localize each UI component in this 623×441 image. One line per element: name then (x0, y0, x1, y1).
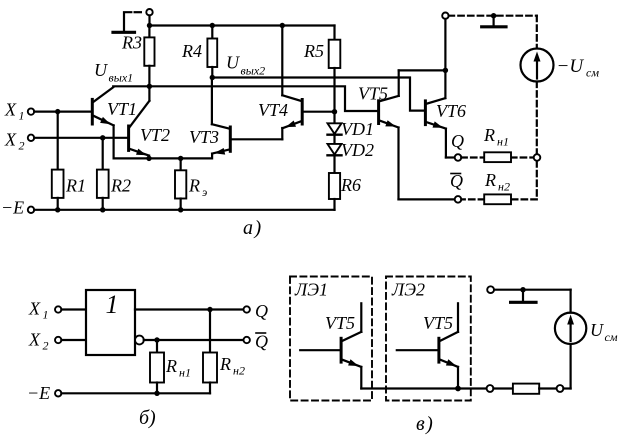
label Usm (590, 320, 618, 344)
wire from bias resistor (539, 387, 556, 389)
wire: gate to Q (135, 308, 244, 310)
diode VD1 (328, 112, 342, 144)
label Qbar (part b) (255, 332, 268, 352)
terminal -E (part a) (28, 207, 34, 213)
resistor R2 (97, 138, 109, 210)
svg-text:1: 1 (106, 290, 119, 319)
junction: Qbar line / Rn1 (154, 337, 159, 342)
svg-text:R6: R6 (340, 175, 361, 195)
junction: R4 foot / VT3 collector (210, 75, 215, 80)
terminal (right of bias resistor) (557, 385, 564, 392)
wire: X2 to gate (61, 339, 86, 341)
junction: R3/VT2 collector on Uvyx1 line (147, 84, 152, 89)
junction: rail/R3 (147, 23, 152, 28)
label X1 (part b) (28, 299, 49, 322)
resistor Rn2 (part a) (484, 194, 511, 204)
label Rn1 (part b) (165, 356, 191, 380)
svg-text:1: 1 (43, 308, 49, 322)
dashed box LE1 (290, 277, 372, 401)
resistor R1 (52, 112, 64, 210)
svg-text:R: R (188, 176, 200, 196)
wire: VT4 emitter to VT3 base (232, 128, 283, 139)
wire: X2 line to VT2 base (34, 137, 127, 139)
transistor VT1 (92, 87, 113, 158)
svg-text:R: R (483, 125, 495, 145)
label Rn1 (part a) (483, 125, 509, 149)
svg-text:VT5: VT5 (423, 313, 453, 333)
svg-text:н1: н1 (497, 135, 509, 149)
svg-text:Q: Q (451, 131, 464, 151)
svg-text:2: 2 (43, 339, 49, 353)
resistor R5 (329, 26, 341, 112)
transistor VT2 (129, 86, 150, 158)
junction: ground tap (part v) (520, 287, 525, 292)
terminal (top supply, part a) (146, 9, 152, 26)
svg-text:н1: н1 (179, 366, 191, 380)
junction: VT2 emitter (146, 156, 151, 161)
terminal X1 (part b) (55, 306, 61, 312)
svg-text:VT5: VT5 (325, 313, 355, 333)
junction: Q line / Rn2 (207, 307, 212, 312)
svg-text:X: X (28, 299, 41, 319)
terminal -E (part b) (55, 390, 61, 396)
wire: top supply rail (150, 24, 335, 26)
svg-text:см: см (605, 330, 618, 344)
svg-text:в): в) (416, 413, 434, 435)
svg-text:X: X (4, 100, 17, 120)
svg-text:U: U (94, 60, 108, 80)
bias resistor (part v) (513, 384, 539, 394)
svg-text:VT4: VT4 (258, 100, 288, 120)
terminal X2 (part b) (55, 337, 61, 343)
svg-text:см: см (586, 66, 599, 80)
wire: X1 to gate (61, 308, 86, 310)
svg-text:VT2: VT2 (140, 125, 170, 145)
svg-text:VD1: VD1 (341, 119, 374, 139)
label Uvyx2 (226, 53, 265, 78)
terminal Qbar (455, 196, 462, 203)
svg-text:1: 1 (19, 109, 25, 123)
svg-text:−E: −E (27, 383, 50, 403)
resistor Re (175, 158, 186, 209)
junction: rail/VT4 collector (280, 23, 285, 28)
svg-text:б): б) (139, 407, 156, 429)
svg-text:−E: −E (1, 198, 24, 218)
svg-text:ЛЭ2: ЛЭ2 (391, 280, 425, 300)
svg-text:вых2: вых2 (241, 64, 266, 78)
svg-text:R4: R4 (181, 41, 202, 61)
label Uvyx1 (94, 60, 133, 85)
transistor VT3 (212, 78, 230, 159)
svg-text:−U: −U (557, 56, 585, 77)
svg-text:вых1: вых1 (109, 71, 134, 85)
wire: common emitter line (114, 157, 212, 159)
wire: up to current source (563, 344, 570, 389)
node Uvyx1: wire from R3 foot to VT5 base (113, 86, 377, 111)
svg-text:X: X (4, 130, 17, 150)
label X1 (4, 100, 25, 123)
svg-text:X: X (28, 330, 41, 350)
svg-text:VT5: VT5 (358, 84, 388, 104)
svg-text:Q: Q (255, 332, 268, 352)
wire: Qbar output lead (399, 198, 455, 200)
node Uvyx2: wire from R4 foot to VT6 base (212, 78, 424, 111)
label Re (188, 176, 207, 200)
wire: -E rail (part b) (61, 392, 210, 394)
resistor R3 (144, 26, 154, 87)
svg-text:ЛЭ1: ЛЭ1 (294, 280, 328, 300)
svg-text:VT1: VT1 (107, 99, 137, 119)
label Rn2 (part b) (219, 354, 245, 378)
ground (top-left, part a) (113, 12, 141, 32)
input terminal X1 (28, 108, 34, 114)
junction: rail/R4 (210, 23, 215, 28)
wire: gate to Qbar (144, 339, 244, 341)
current source Usm (part v) (555, 313, 586, 344)
junction: X1/R1 (55, 109, 60, 114)
junction: X2/R2 (100, 135, 105, 140)
diode VD2 (328, 144, 342, 173)
dashed box LE2 (386, 277, 471, 401)
dashed net: top right to bias source (449, 16, 537, 200)
svg-text:R: R (484, 170, 496, 190)
svg-text:R3: R3 (121, 33, 142, 53)
transistor VT4 (282, 26, 334, 129)
gate U1 (OR symbol box) (86, 290, 135, 355)
wire: -E rail (34, 209, 334, 211)
label -Usm (557, 56, 600, 80)
label Rn2 (part a) (484, 170, 510, 194)
junction terminal on bias line (534, 154, 541, 161)
svg-text:VT6: VT6 (436, 101, 466, 121)
resistor Rn1 (part b) (150, 340, 164, 393)
junction: Rn1/-E (part b) (154, 391, 159, 396)
svg-text:R: R (165, 356, 177, 376)
terminal Q (part b) (244, 306, 250, 312)
terminal (left of bias resistor) (487, 385, 494, 392)
resistor Rn1 (part a) (484, 152, 511, 162)
wire: common emitter line (part v) (361, 387, 486, 389)
junction: R1/-E (55, 207, 60, 212)
svg-text:R2: R2 (110, 176, 131, 196)
transistor VT5 (part a) (379, 70, 446, 199)
svg-text:U: U (590, 320, 604, 340)
junction: Re/-E (178, 207, 183, 212)
svg-text:н2: н2 (498, 180, 510, 194)
svg-text:2: 2 (19, 139, 25, 153)
junction: LE2 emitter (455, 386, 461, 392)
svg-text:R: R (219, 354, 231, 374)
ground (part v) (511, 290, 536, 303)
svg-text:R1: R1 (65, 176, 86, 196)
wire: Q output lead (446, 156, 455, 158)
label X2 (part b) (28, 330, 49, 353)
transistor VT6 (425, 70, 446, 157)
inversion bubble (135, 336, 144, 345)
terminal Qbar (part b) (244, 337, 250, 343)
label Qbar (450, 171, 463, 191)
svg-text:н2: н2 (233, 364, 245, 378)
wire: X1 line to VT1 base (34, 110, 91, 112)
resistor R6 (329, 173, 340, 210)
junction: Re top (178, 156, 183, 161)
svg-text:U: U (226, 53, 240, 73)
junction: R2/-E (100, 207, 105, 212)
terminal Q (455, 154, 462, 161)
transistor VT5 (LE1) (300, 303, 361, 388)
label X2 (4, 130, 25, 153)
node A: reference divider junction (332, 109, 337, 114)
svg-text:Q: Q (255, 301, 268, 321)
input terminal X2 (28, 135, 34, 141)
ground (top right, part a) (482, 16, 506, 27)
terminal (top right, part a) (442, 13, 448, 71)
current source -Usm (521, 49, 554, 82)
resistor Rn2 (part b) (203, 310, 217, 394)
junction: VT5/VT6 collectors (443, 68, 448, 73)
svg-text:э: э (202, 185, 207, 199)
terminal (top, part v) (487, 286, 494, 293)
svg-text:R5: R5 (303, 41, 324, 61)
wire to bias resistor (493, 387, 513, 389)
wire: current source to top rail (part v) (494, 290, 571, 313)
svg-text:VT3: VT3 (189, 127, 219, 147)
svg-text:а): а) (243, 217, 263, 239)
junction: ground tap on dashed rail (491, 13, 496, 18)
transistor VT5 (LE2) (397, 303, 458, 388)
resistor R4 (207, 26, 217, 78)
svg-text:VD2: VD2 (341, 140, 374, 160)
